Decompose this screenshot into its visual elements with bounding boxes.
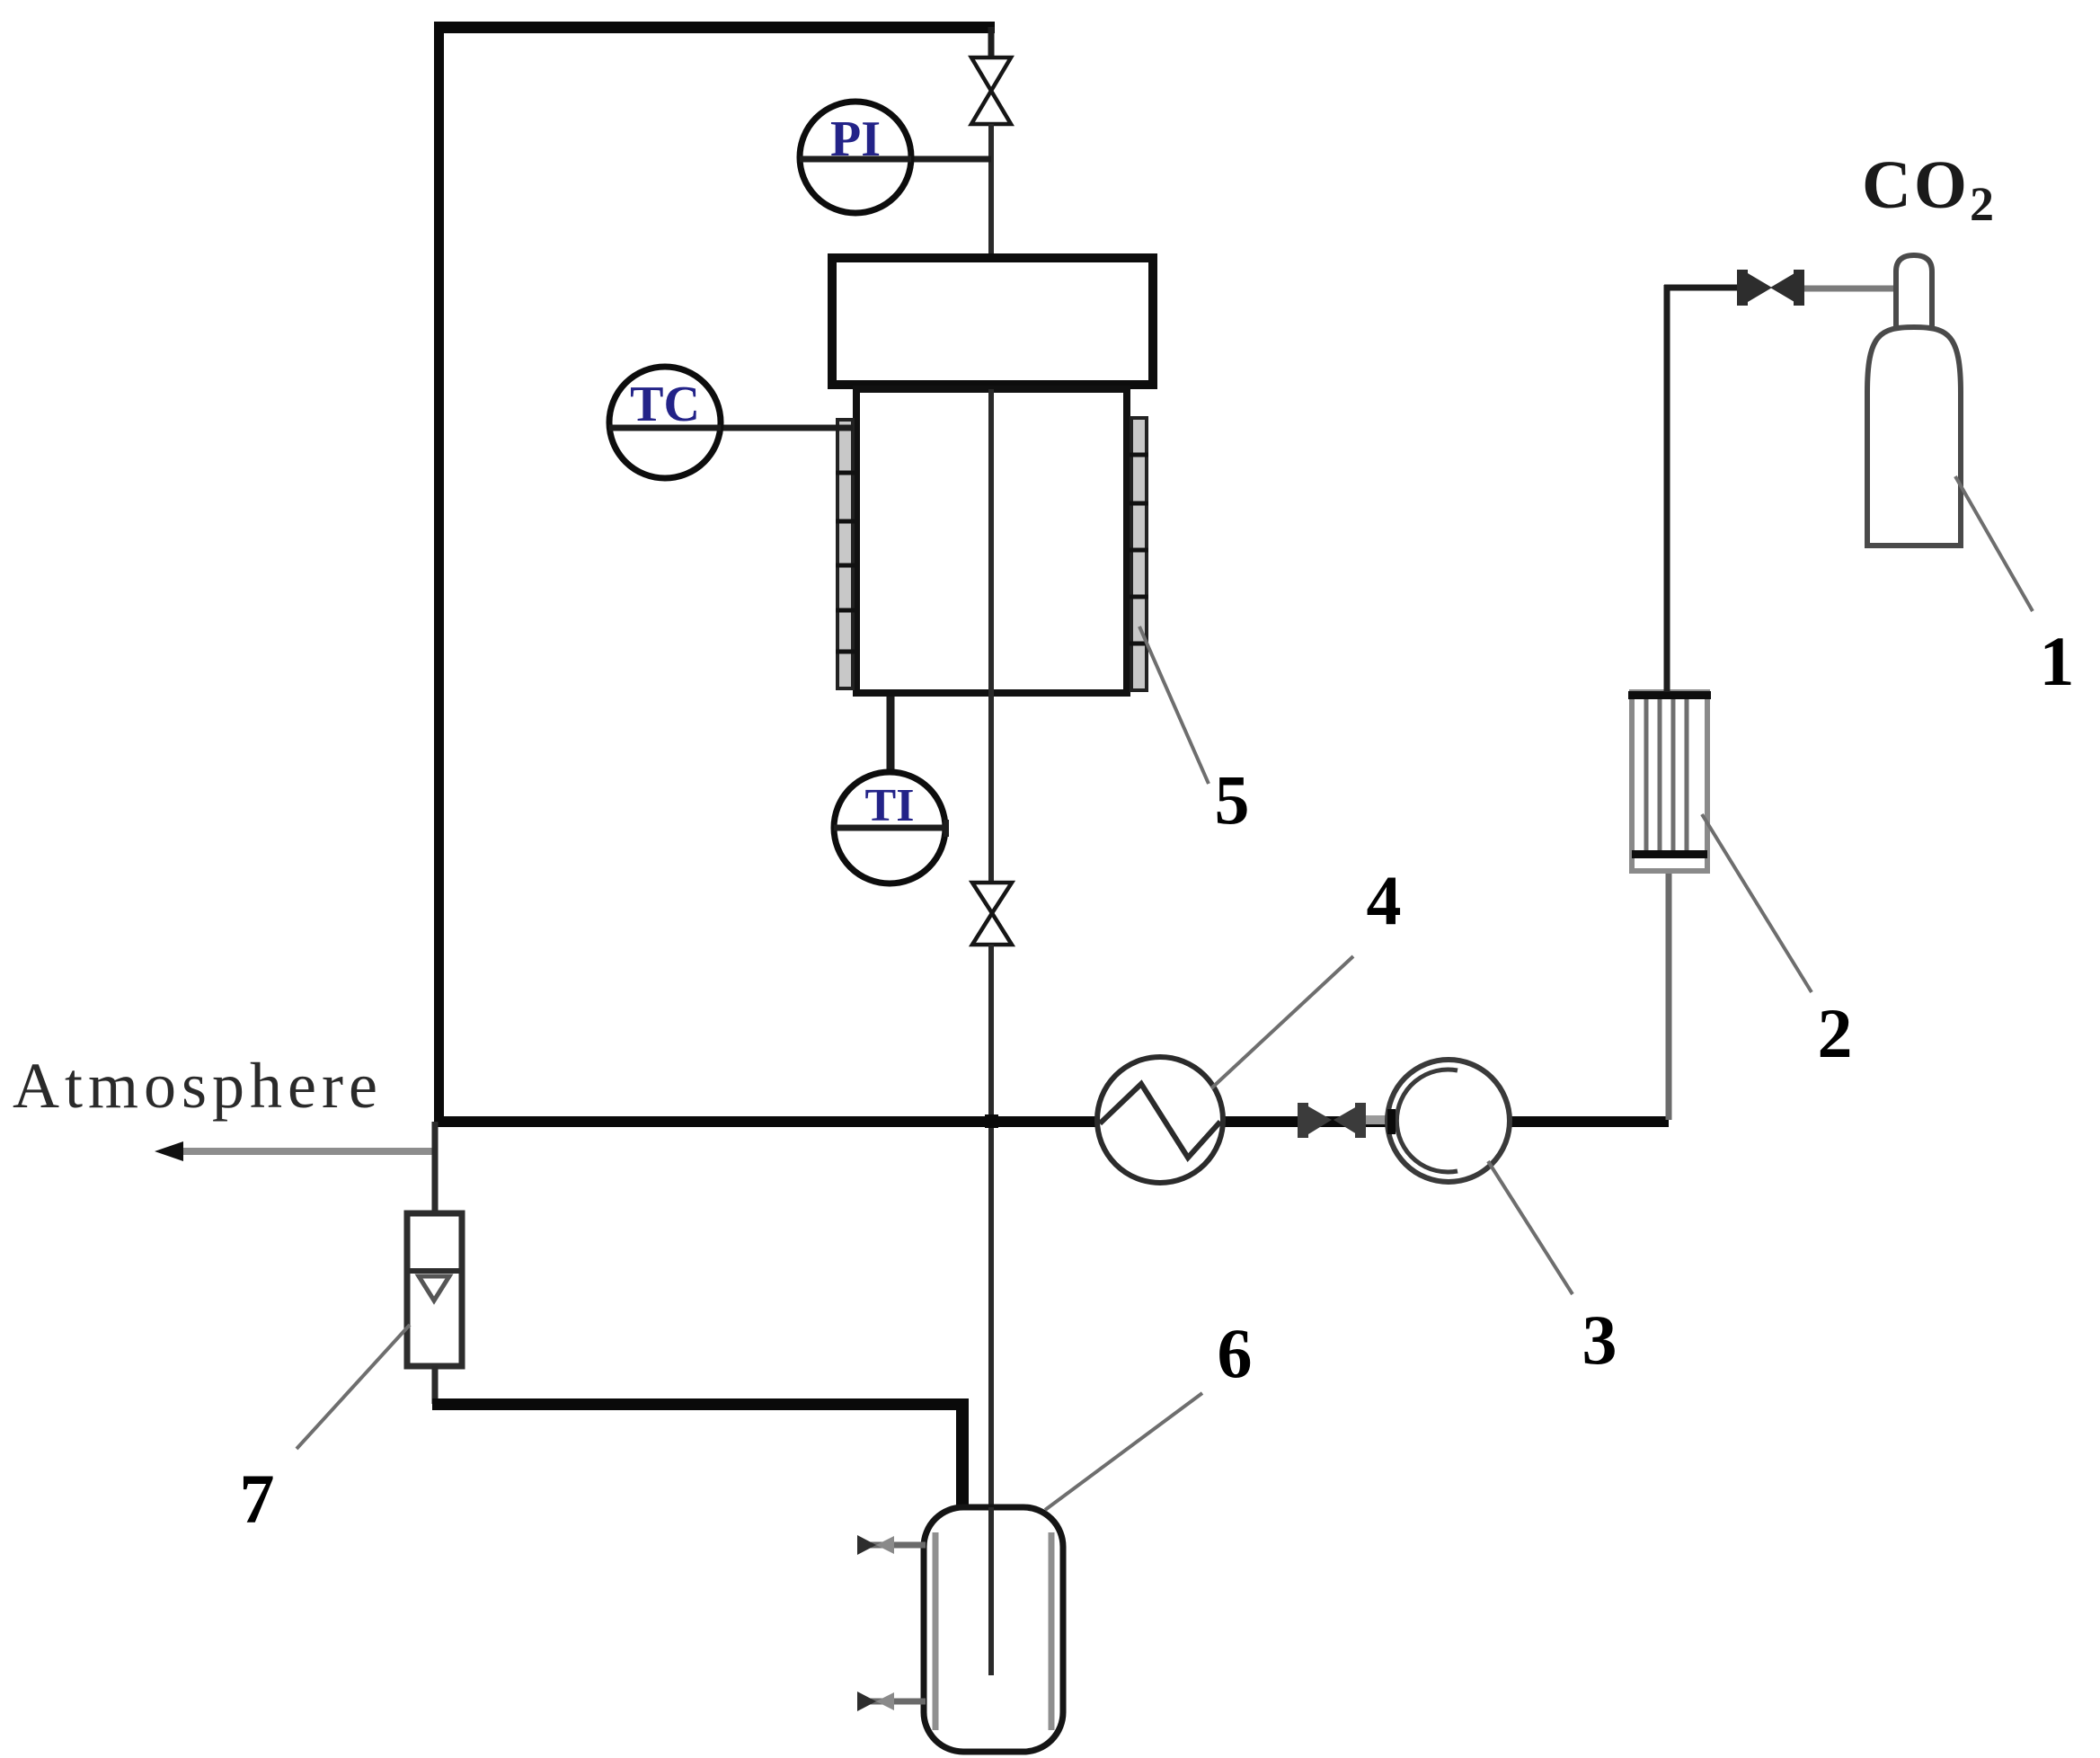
wire: pipe from outlet valve down to separator bbox=[988, 945, 994, 1675]
valve on CO2 cylinder bbox=[1737, 270, 1804, 306]
heating jacket left bbox=[836, 420, 855, 688]
junction of pipe and main line bbox=[985, 1114, 998, 1128]
pump 3 bbox=[1387, 1060, 1510, 1182]
leader line to label 6 bbox=[1045, 1393, 1202, 1510]
cooler 2 (condenser coil) bbox=[1628, 691, 1711, 871]
wire: PI gauge branch line bbox=[800, 156, 991, 163]
wire: line from main corner down to rotameter bbox=[432, 1122, 439, 1215]
svg-text:6: 6 bbox=[1218, 1314, 1253, 1392]
wire: left thick vertical line bbox=[434, 22, 444, 1123]
wire: gray spool piece check valve to pump bbox=[1366, 1115, 1391, 1124]
wire: pipe from valve to extractor lid bbox=[988, 124, 994, 255]
svg-text:TC: TC bbox=[630, 377, 700, 432]
heating jacket right bbox=[1130, 418, 1148, 690]
wire: TC branch line to extractor wall bbox=[719, 425, 853, 431]
svg-text:CO2: CO2 bbox=[1862, 147, 1997, 231]
svg-text:PI: PI bbox=[830, 111, 881, 167]
wire: thick drop into separator bbox=[956, 1398, 969, 1510]
wire: center dip pipe through extractor bbox=[988, 389, 994, 882]
leader line to label 3 bbox=[1488, 1161, 1573, 1294]
wire: stirrer shaft inside separator bbox=[988, 1507, 994, 1675]
separator upper nozzle with mini valve bbox=[857, 1535, 926, 1555]
wire: horizontal line corner to cylinder valve bbox=[1664, 285, 1740, 291]
instrument PI (pressure indicator) bbox=[800, 102, 911, 213]
wire: thick line to separator bbox=[432, 1398, 964, 1410]
separator lower nozzle with mini valve bbox=[857, 1691, 926, 1711]
wire: right vertical pipe from top line to valve bbox=[988, 27, 995, 59]
wire: bottom thick main line (pump/HX line) bbox=[434, 1116, 1669, 1127]
leader line to label 1 bbox=[1955, 476, 2033, 611]
CO2 cylinder 1 bbox=[1867, 255, 1961, 546]
arrowhead bbox=[155, 1141, 183, 1161]
extractor body 5 bbox=[856, 389, 1127, 693]
svg-text:1: 1 bbox=[2040, 622, 2075, 700]
wire: line from cooler top up to CO2 supply corner bbox=[1664, 285, 1670, 692]
separator 6 bbox=[924, 1507, 1063, 1752]
wire: extractor bottom outlet to TI bbox=[887, 697, 895, 774]
leader line from jacket to label 5 bbox=[1139, 626, 1209, 784]
wire: spool from valve to cylinder neck bbox=[1804, 286, 1898, 292]
svg-text:5: 5 bbox=[1215, 760, 1250, 839]
wire: riser from main line up to cooler 2 bbox=[1666, 868, 1672, 1120]
wire: rotameter down to separator feed corner bbox=[432, 1366, 439, 1404]
instrument TC (temperature controller) bbox=[609, 367, 721, 478]
valve V-bottom (extractor outlet valve) bbox=[972, 883, 1012, 945]
wire: top thick header line bbox=[434, 22, 995, 33]
leader line to label 2 bbox=[1702, 814, 1812, 992]
svg-text:Atmosphere: Atmosphere bbox=[13, 1050, 383, 1122]
svg-text:TI: TI bbox=[865, 780, 915, 831]
instrument TI (temperature indicator) bbox=[834, 772, 945, 883]
svg-text:3: 3 bbox=[1582, 1301, 1617, 1379]
svg-text:4: 4 bbox=[1367, 861, 1402, 939]
extractor lid (head flange) bbox=[832, 258, 1153, 385]
rotameter 7 bbox=[407, 1213, 462, 1366]
leader line to label 7 bbox=[297, 1325, 410, 1449]
wire: vent line to atmosphere with arrow bbox=[176, 1148, 437, 1155]
heat exchanger 4 bbox=[1097, 1057, 1223, 1183]
leader line to label 4 bbox=[1211, 956, 1353, 1088]
check valve between HX and pump bbox=[1298, 1103, 1366, 1138]
svg-text:2: 2 bbox=[1818, 994, 1853, 1072]
svg-text:7: 7 bbox=[240, 1460, 275, 1538]
valve V-top (vent valve on extractor head line) bbox=[971, 58, 1011, 124]
